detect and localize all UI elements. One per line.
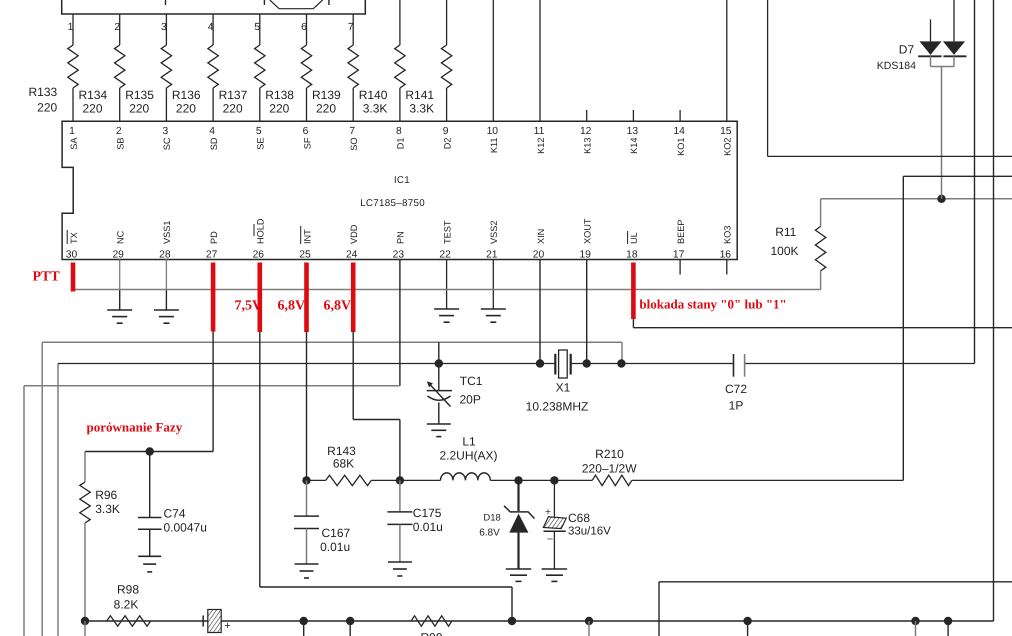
wire net R210 riser — [902, 176, 904, 480]
wire stub below x589 — [588, 621, 590, 636]
wire stub below x303 — [303, 621, 305, 636]
wire pin23 horizontal — [24, 385, 400, 387]
wire pin6 from top to resistor — [306, 14, 308, 45]
wire resistor R139 to IC pin 7 — [352, 88, 354, 121]
wire pin25 down — [306, 332, 308, 481]
wire stub below x747 — [747, 621, 749, 636]
wire C68 bottom — [553, 531, 555, 569]
junction node bottom pin26 — [508, 617, 516, 625]
svg-text:23: 23 — [393, 250, 405, 261]
svg-text:blokada stany "0" lub "1": blokada stany "0" lub "1" — [639, 297, 786, 312]
wire xtal net right — [745, 363, 975, 365]
capacitor C?? electrolytic hatched plate — [208, 610, 221, 633]
wire R96 bottom — [84, 523, 86, 621]
svg-text:19: 19 — [579, 250, 591, 261]
svg-text:220: 220 — [269, 102, 289, 116]
junction node rail pin25 — [302, 476, 310, 484]
wire IC1 pin 11 K12 to top — [539, 0, 541, 121]
junction node bottom x948 — [944, 617, 952, 625]
capacitor TC1 plates — [427, 390, 452, 392]
svg-text:R137: R137 — [219, 88, 248, 102]
red mark pin 24 VDD — [351, 263, 356, 333]
svg-text:D1: D1 — [396, 138, 406, 150]
svg-text:14: 14 — [673, 126, 685, 137]
overline TX — [66, 230, 68, 244]
resistor R136 — [208, 45, 218, 88]
wire stub below x948 — [947, 621, 949, 636]
op-chip IC1 outline — [62, 121, 737, 259]
svg-text:C68: C68 — [568, 511, 590, 525]
svg-text:3: 3 — [163, 126, 169, 137]
connector box J1 (cut off at image top) — [62, 0, 366, 14]
wire R11 top — [820, 199, 822, 227]
svg-text:R98: R98 — [117, 582, 139, 596]
wire IC1 pin 10 K11 to top — [492, 0, 494, 121]
svg-text:HOLD: HOLD — [256, 218, 266, 244]
svg-text:26: 26 — [253, 250, 265, 261]
wire D18 bottom — [517, 533, 519, 569]
svg-text:SE: SE — [256, 138, 266, 150]
svg-text:K11: K11 — [489, 137, 499, 153]
svg-text:R140: R140 — [359, 88, 388, 102]
resistor R141 — [441, 45, 451, 88]
wire pin2 from top to resistor — [119, 14, 121, 45]
capacitor C68 negative plate — [544, 530, 566, 532]
wire pin5 from top to resistor — [259, 14, 261, 45]
svg-text:SO: SO — [349, 138, 359, 151]
wire pin26 corner down — [511, 587, 513, 621]
stub IC1 pin 12 K13 — [586, 110, 588, 121]
wire xtal net right corner — [974, 363, 976, 365]
svg-text:4: 4 — [209, 126, 215, 137]
tick mark inside box — [328, 0, 330, 5]
svg-text:KO1: KO1 — [676, 138, 686, 156]
junction node bottom x350 — [346, 617, 354, 625]
svg-text:220–1/2W: 220–1/2W — [582, 461, 637, 475]
svg-text:7,5V: 7,5V — [235, 299, 263, 314]
svg-text:K12: K12 — [536, 138, 546, 154]
stub IC1 pin 17 BEEP — [679, 260, 681, 275]
red mark pin 25 INT — [304, 263, 309, 333]
diode D7 right anode wire — [953, 0, 955, 41]
junction node rail C175 — [396, 476, 404, 484]
wire pin8 from top to resistor — [399, 0, 401, 45]
ground C175 — [388, 561, 412, 563]
svg-text:PD: PD — [209, 231, 219, 244]
diode D7 left — [920, 41, 942, 55]
svg-text:TC1: TC1 — [460, 374, 483, 388]
junction node XOUT pin19 — [583, 359, 591, 367]
capacitor C68 positive plate — [543, 517, 566, 529]
wire C175 top — [399, 480, 401, 512]
wire resistor R138 to IC pin 6 — [306, 88, 308, 121]
svg-text:6,8V: 6,8V — [324, 299, 352, 314]
wire frame top-right box left edge — [767, 0, 769, 156]
junction node bottom x589 — [585, 617, 593, 625]
tick mark inside box — [263, 0, 265, 5]
wire D7 cathode join — [931, 66, 955, 68]
svg-text:5: 5 — [256, 126, 262, 137]
wire stub below x350 — [349, 621, 351, 636]
crystal X1 — [554, 354, 556, 375]
svg-text:XOUT: XOUT — [583, 218, 593, 244]
wire rail L1-R210 — [490, 479, 592, 481]
diode D18 zener bar — [504, 506, 534, 519]
svg-text:L1: L1 — [462, 434, 476, 448]
svg-text:10: 10 — [487, 126, 499, 137]
svg-text:13: 13 — [627, 126, 639, 137]
wire pin9 from top to resistor — [446, 0, 448, 45]
wire pin26 horizontal — [260, 586, 512, 588]
svg-text:TEST: TEST — [442, 220, 452, 244]
ground C68 — [542, 568, 568, 570]
wire stub below x915 — [915, 621, 917, 636]
wire rail R210 right — [632, 479, 904, 481]
resistor R134 — [115, 45, 125, 88]
wire pin21 to ground — [492, 260, 494, 310]
svg-text:220: 220 — [223, 102, 243, 116]
svg-text:+: + — [224, 620, 230, 632]
svg-text:17: 17 — [673, 250, 685, 261]
resistor R98 — [107, 616, 151, 626]
svg-text:D7: D7 — [899, 42, 915, 56]
wire pin28 to ground — [165, 260, 167, 290]
diode D18 triangle — [509, 514, 528, 533]
svg-text:KDS184: KDS184 — [877, 60, 916, 72]
svg-text:R96: R96 — [95, 488, 117, 502]
svg-text:R133: R133 — [29, 85, 58, 99]
resistor R96 — [80, 482, 90, 523]
wire net D7 horizontal — [821, 198, 1012, 200]
wire xtal net left vertical — [57, 364, 59, 636]
wire pin23 down — [399, 260, 401, 386]
junction node C68 — [550, 476, 558, 484]
wire IC1 pin 15 KO2 to top — [726, 0, 728, 121]
wire pin4 from top to resistor — [212, 14, 214, 45]
capacitor C175 — [387, 511, 412, 513]
svg-text:SD: SD — [209, 137, 219, 150]
resistor R135 — [161, 45, 171, 88]
wire pin23 left vertical — [23, 386, 25, 636]
wire resistor R133 to IC pin 1 — [72, 88, 74, 121]
wire C74 top — [149, 452, 151, 518]
svg-text:3.3K: 3.3K — [363, 102, 388, 116]
svg-text:220: 220 — [37, 101, 57, 115]
wire D18 top — [517, 480, 519, 511]
wire pin18 down — [632, 319, 634, 328]
wire pin29 to ground — [119, 260, 121, 290]
ground D18 — [506, 568, 532, 570]
wire pin27 horizontal — [85, 451, 213, 453]
red mark pin 27 PD — [211, 263, 216, 332]
svg-text:NC: NC — [116, 230, 126, 244]
wire C74 bottom — [149, 529, 151, 556]
inductor L1 — [441, 473, 491, 481]
svg-text:–: – — [547, 534, 553, 545]
svg-text:3.3K: 3.3K — [95, 502, 120, 516]
wire net y582 horizontal — [659, 581, 1012, 583]
wire D7 common descent — [941, 67, 943, 199]
svg-text:220: 220 — [176, 102, 196, 116]
wire resistor R135 to IC pin 3 — [165, 88, 167, 121]
svg-text:6.8V: 6.8V — [479, 527, 500, 538]
capacitor C167 — [294, 515, 319, 517]
svg-text:29: 29 — [112, 250, 124, 261]
wire C167 bottom — [306, 529, 308, 565]
svg-text:INT: INT — [302, 229, 312, 244]
svg-text:VSS1: VSS1 — [162, 221, 172, 245]
wire R96 continuation below — [84, 621, 86, 636]
svg-text:C72: C72 — [725, 382, 747, 396]
wire TC1 top — [438, 364, 440, 391]
red mark pin 30 PTT — [71, 263, 76, 292]
wire pin7 from top to resistor — [352, 14, 354, 45]
svg-text:PN: PN — [396, 231, 406, 244]
resistor R99 — [411, 616, 452, 626]
wire R11 bottom — [820, 271, 822, 290]
junction node C72 — [617, 359, 625, 367]
wire bottom rail right corner — [993, 620, 995, 622]
svg-text:KO2: KO2 — [723, 138, 733, 156]
ground pin28 — [154, 309, 179, 311]
junction node XIN pin20 — [536, 359, 544, 367]
diode D7 right — [943, 41, 965, 55]
svg-text:3.3K: 3.3K — [409, 102, 434, 116]
junction node TC1 — [435, 359, 443, 367]
junction node D7/R11 — [937, 195, 945, 203]
svg-text:18: 18 — [626, 250, 638, 261]
wire pin24 down — [352, 332, 354, 420]
red mark pin 18 UL — [631, 263, 636, 320]
svg-text:25: 25 — [299, 250, 311, 261]
svg-text:IC1: IC1 — [394, 175, 410, 186]
wire pin27 down — [212, 332, 214, 452]
ground pin22 — [434, 308, 459, 310]
svg-text:9: 9 — [443, 126, 449, 137]
svg-text:K14: K14 — [629, 138, 639, 154]
svg-text:R138: R138 — [265, 88, 294, 102]
svg-text:12: 12 — [580, 126, 592, 137]
wire R96 top — [84, 452, 86, 483]
overline INT — [300, 226, 302, 244]
wire C167 top — [306, 480, 308, 516]
svg-text:SB: SB — [116, 138, 126, 150]
stub IC1 pin 13 K14 — [632, 110, 634, 121]
wire rail R143-L1 — [371, 479, 440, 481]
capacitor C?? electrolytic plate tick — [202, 616, 204, 627]
wire pin22 to ground — [446, 260, 448, 310]
svg-text:6: 6 — [303, 126, 309, 137]
capacitor C72 — [733, 354, 735, 377]
wire resistor R134 to IC pin 2 — [119, 88, 121, 121]
wire xtal net mid — [571, 363, 734, 365]
svg-text:PTT: PTT — [33, 270, 61, 285]
overline UL — [627, 231, 629, 244]
wire bottom rail — [85, 620, 994, 622]
svg-text:1P: 1P — [729, 399, 744, 413]
svg-text:VDD: VDD — [349, 224, 359, 244]
junction node D18 — [514, 476, 522, 484]
svg-text:R135: R135 — [125, 88, 154, 102]
svg-text:R139: R139 — [312, 88, 341, 102]
resistor R143 — [326, 475, 372, 485]
svg-text:VSS2: VSS2 — [489, 221, 499, 244]
wire net y582 vertical — [658, 582, 660, 636]
wire net y342 stub to TC1 node — [438, 342, 440, 363]
wire C175 bottom — [399, 524, 401, 562]
capacitor TC1 arrow — [429, 384, 451, 407]
ground pin21 — [481, 308, 506, 310]
wire xtal net — [58, 363, 555, 365]
wire resistor R137 to IC pin 5 — [259, 88, 261, 121]
wire bus vertical x975 — [974, 0, 976, 364]
junction node bottom x303 — [300, 617, 308, 625]
svg-text:28: 28 — [159, 250, 171, 261]
svg-text:30: 30 — [66, 250, 78, 261]
svg-text:0.0047u: 0.0047u — [164, 521, 207, 535]
ground C74 — [138, 555, 161, 557]
svg-text:0.01u: 0.01u — [413, 520, 443, 534]
svg-text:11: 11 — [534, 126, 545, 137]
svg-text:16: 16 — [720, 250, 732, 261]
svg-text:R99: R99 — [420, 631, 442, 636]
svg-text:33u/16V: 33u/16V — [568, 525, 611, 537]
tick mark inside box — [165, 0, 167, 5]
svg-text:XIN: XIN — [536, 229, 546, 244]
svg-text:1: 1 — [69, 126, 75, 137]
wire resistor R140 to IC pin 8 — [399, 88, 401, 121]
svg-text:27: 27 — [206, 250, 218, 261]
svg-text:R134: R134 — [79, 88, 108, 102]
ground C167 — [295, 563, 319, 565]
wire pin26 down — [259, 332, 261, 587]
resistor R140 — [395, 45, 405, 88]
svg-text:21: 21 — [486, 250, 498, 261]
resistor R11 — [815, 226, 825, 271]
wire resistor R136 to IC pin 4 — [212, 88, 214, 121]
svg-text:R11: R11 — [775, 225, 796, 239]
svg-text:SC: SC — [162, 137, 172, 150]
svg-text:UL: UL — [629, 232, 639, 244]
svg-text:D18: D18 — [483, 512, 500, 523]
svg-text:0.01u: 0.01u — [320, 540, 350, 554]
wire PTT bus pin30 to R11 — [73, 289, 821, 291]
wire pin19 XOUT down — [586, 260, 588, 364]
wire pin24 horizontal — [353, 419, 400, 421]
svg-text:C167: C167 — [322, 526, 351, 540]
wire TC1 bottom — [438, 403, 440, 425]
ground TC1 — [427, 423, 451, 425]
svg-text:220: 220 — [129, 102, 149, 116]
resistor R133 — [68, 45, 78, 88]
wire blokada horizontal — [633, 327, 1012, 329]
junction node bottom x915 — [911, 617, 919, 625]
capacitor C74 — [138, 517, 162, 519]
svg-text:2.2UH(AX): 2.2UH(AX) — [439, 448, 497, 462]
svg-text:BEEP: BEEP — [676, 219, 686, 244]
wire pin3 from top to resistor — [165, 14, 167, 45]
resistor R137 — [255, 45, 265, 88]
wire frame top-right box bottom edge — [768, 155, 1012, 157]
svg-text:porównanie Fazy: porównanie Fazy — [87, 420, 183, 435]
svg-text:8: 8 — [396, 126, 402, 137]
svg-text:22: 22 — [439, 250, 451, 261]
svg-text:7: 7 — [349, 126, 355, 137]
junction node R96/bottom — [81, 617, 89, 625]
resistor R210 — [592, 475, 632, 485]
svg-text:TX: TX — [69, 232, 79, 244]
svg-text:LC7185–8750: LC7185–8750 — [360, 198, 425, 209]
resistor R138 — [301, 45, 311, 88]
stub IC1 pin 14 KO1 — [679, 110, 681, 121]
svg-text:10.238MHZ: 10.238MHZ — [526, 400, 589, 414]
stub IC1 pin 16 KO3 — [726, 260, 728, 275]
diode D7 left anode wire — [930, 19, 932, 41]
svg-text:20: 20 — [533, 250, 545, 261]
red mark pin 26 HOLD — [257, 263, 262, 333]
svg-text:R141: R141 — [405, 88, 434, 102]
svg-text:C175: C175 — [413, 506, 442, 520]
resistor R139 — [348, 45, 358, 88]
svg-text:15: 15 — [720, 126, 732, 137]
svg-text:24: 24 — [346, 250, 358, 261]
wire net R210 top horizontal — [903, 175, 1012, 177]
svg-text:SF: SF — [302, 137, 312, 149]
svg-text:8.2K: 8.2K — [114, 597, 139, 611]
wire pin1 from top to resistor — [72, 14, 74, 45]
svg-text:D2: D2 — [442, 138, 452, 150]
wire pin24 corner down — [399, 420, 401, 481]
svg-text:C74: C74 — [164, 506, 186, 520]
svg-text:220: 220 — [83, 102, 103, 116]
wire net y342 horizontal — [42, 341, 622, 343]
wire resistor R141 to IC pin 9 — [446, 88, 448, 121]
svg-text:X1: X1 — [556, 381, 571, 395]
wire bus vertical x994 — [993, 0, 995, 621]
display segment outline inside box — [270, 0, 323, 9]
wire rail R143 left — [307, 479, 326, 481]
svg-text:6,8V: 6,8V — [278, 299, 306, 314]
wire net y342 left vertical — [41, 342, 43, 636]
svg-text:SA: SA — [69, 137, 79, 150]
junction node bottom x747 — [743, 617, 751, 625]
svg-text:68K: 68K — [333, 456, 354, 470]
overline HOLD(OL) — [253, 224, 255, 236]
svg-text:R210: R210 — [595, 447, 624, 461]
junction node C74 — [146, 447, 154, 455]
svg-text:KO3: KO3 — [723, 226, 733, 244]
wire C68 top — [553, 480, 555, 516]
svg-text:R136: R136 — [172, 88, 201, 102]
wire net y342 right corner down — [621, 342, 623, 363]
svg-text:2: 2 — [116, 126, 122, 137]
svg-text:100K: 100K — [770, 244, 798, 258]
wire pin20 XIN down — [539, 260, 541, 364]
svg-text:20P: 20P — [460, 393, 481, 407]
ground pin29 — [107, 309, 132, 311]
svg-text:220: 220 — [316, 102, 336, 116]
svg-text:K13: K13 — [583, 138, 593, 154]
